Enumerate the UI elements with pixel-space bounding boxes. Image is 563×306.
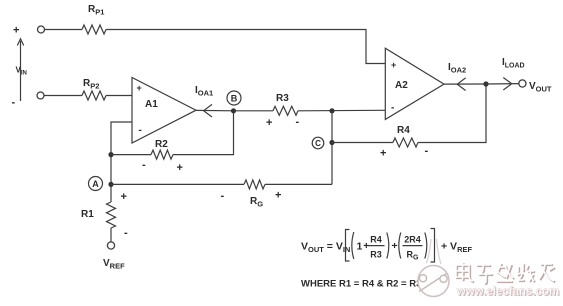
svg-text:B: B — [231, 93, 238, 103]
svg-text:A2: A2 — [395, 80, 408, 91]
terminal VOUT — [519, 80, 526, 87]
junction dot R3 right — [329, 108, 334, 113]
svg-text:1: 1 — [357, 241, 363, 253]
svg-text:+: + — [266, 117, 272, 129]
svg-text:R3: R3 — [276, 93, 289, 104]
svg-text:A1: A1 — [145, 99, 158, 110]
wire A1 minus input feedback — [111, 122, 132, 202]
resistor RP2 — [82, 91, 106, 100]
svg-text:VREF: VREF — [103, 258, 125, 271]
svg-text:IOA1: IOA1 — [195, 85, 213, 98]
svg-text:RG: RG — [407, 250, 420, 262]
svg-text:+ VREF: + VREF — [441, 241, 472, 255]
arrow IOA2 — [457, 78, 465, 91]
resistor R2 — [151, 150, 173, 159]
svg-text:RP1: RP1 — [88, 4, 104, 17]
wire T1 to RP1 — [45, 29, 83, 31]
svg-text:-: - — [221, 190, 225, 202]
arrow ILOAD — [503, 78, 511, 91]
svg-text:RG: RG — [250, 196, 263, 209]
op-amp A2 — [385, 48, 444, 119]
wire T2 to RP2 — [44, 95, 82, 97]
svg-text:+: + — [121, 191, 127, 203]
svg-text:ILOAD: ILOAD — [502, 57, 525, 70]
svg-text:C: C — [315, 139, 321, 148]
resistor RG — [244, 180, 265, 189]
svg-text:R4: R4 — [397, 125, 410, 136]
resistor R3 — [273, 106, 298, 115]
svg-text:+: + — [13, 25, 19, 37]
VIN source arrow — [17, 39, 23, 101]
svg-text:+: + — [380, 148, 386, 160]
resistor R4 — [393, 138, 418, 147]
svg-text:R1: R1 — [81, 209, 94, 220]
terminal VIN- — [37, 92, 44, 99]
node C junction dot — [329, 140, 334, 145]
svg-text:-: - — [296, 116, 300, 128]
wire A2 output — [444, 83, 486, 85]
svg-text:-: - — [425, 145, 429, 157]
svg-text:-: - — [12, 97, 16, 109]
svg-text:A: A — [92, 179, 99, 189]
output junction dot — [483, 81, 488, 86]
wire R3 to A2 minus input — [298, 109, 385, 112]
equation VOUT formula — [301, 229, 472, 263]
svg-text:RP2: RP2 — [83, 78, 99, 91]
node A junction dot — [108, 182, 113, 187]
svg-text:-: - — [124, 227, 128, 239]
svg-text:+: + — [177, 162, 183, 174]
svg-text:+: + — [391, 60, 396, 70]
svg-text:R3: R3 — [370, 250, 382, 260]
watermark scissors icon — [418, 239, 449, 297]
resistor R1 — [107, 202, 116, 228]
arrow IOA1 — [204, 104, 212, 117]
wire R1 to VREF terminal — [110, 228, 112, 242]
wire R2 row left — [111, 154, 151, 156]
junction dot R2 left — [108, 152, 113, 157]
wire output junction to VOUT terminal — [486, 83, 519, 85]
svg-text:+: + — [275, 190, 281, 202]
wire node C vertical — [331, 111, 333, 185]
node C — [312, 137, 324, 149]
svg-text:VOUT = VIN: VOUT = VIN — [301, 241, 350, 255]
watermark chinese text dianzifashaoyou — [456, 262, 555, 284]
wire RG to node C — [265, 183, 332, 185]
wire node B to R3 — [234, 110, 274, 112]
svg-text:-: - — [142, 159, 146, 171]
node A — [89, 177, 103, 191]
svg-text:www.elecfans.com: www.elecfans.com — [456, 286, 559, 298]
node B junction dot — [231, 108, 236, 113]
wire RP1 to A2 plus input — [106, 30, 385, 64]
wire RP2 to A1 plus input — [106, 95, 132, 97]
svg-text:VIN: VIN — [16, 66, 27, 77]
svg-text:-: - — [139, 125, 142, 136]
svg-text:IOA2: IOA2 — [448, 62, 466, 75]
wire node C to R4 — [332, 142, 393, 144]
op-amp A1 — [132, 78, 196, 144]
svg-text:2R4: 2R4 — [404, 235, 421, 245]
svg-text:R2: R2 — [155, 139, 168, 150]
node B — [227, 91, 241, 105]
svg-text:R4: R4 — [370, 235, 382, 245]
svg-text:+: + — [392, 240, 398, 252]
svg-text:-: - — [391, 103, 394, 114]
resistor RP1 — [82, 25, 106, 34]
wire A1 output — [196, 109, 234, 111]
svg-text:+: + — [137, 83, 142, 93]
wire RG row — [111, 183, 244, 185]
wire R4 to output junction — [418, 84, 486, 143]
wire R2 to node B — [173, 111, 234, 155]
terminal VREF — [107, 242, 114, 249]
terminal VIN+ — [38, 26, 45, 33]
watermark url elecfans — [456, 286, 560, 299]
svg-text:VOUT: VOUT — [529, 81, 552, 94]
svg-text:WHERE R1 = R4 & R2 = R3: WHERE R1 = R4 & R2 = R3 — [301, 279, 421, 290]
